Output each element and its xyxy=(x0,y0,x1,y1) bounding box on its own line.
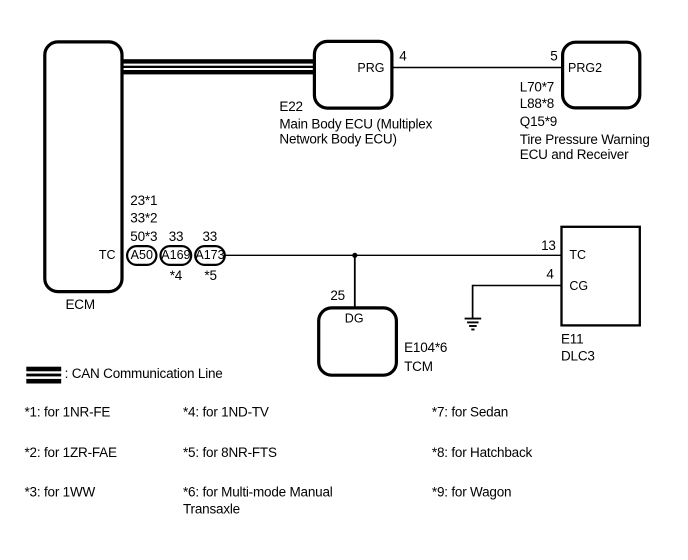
svg-text:L70*7: L70*7 xyxy=(520,79,554,94)
svg-text:PRG2: PRG2 xyxy=(568,61,602,75)
svg-text:*7: for Sedan: *7: for Sedan xyxy=(432,404,508,419)
svg-text:23*1: 23*1 xyxy=(130,193,157,208)
svg-text:*8: for Hatchback: *8: for Hatchback xyxy=(432,445,533,460)
svg-text:E11: E11 xyxy=(561,332,583,347)
connector A173 xyxy=(195,246,225,265)
ECU U2 PRG2 box (Tire Pressure Warning ECU) xyxy=(563,42,640,108)
svg-text:Transaxle: Transaxle xyxy=(183,502,240,517)
wire: CAN communication line (triple) ECM to PRG xyxy=(123,59,315,74)
svg-text:*5: *5 xyxy=(204,268,216,283)
svg-text:*9: for Wagon: *9: for Wagon xyxy=(432,485,511,500)
svg-text:*4: for 1ND-TV: *4: for 1ND-TV xyxy=(183,404,269,419)
junction node xyxy=(352,253,357,258)
legend CAN communication line symbol xyxy=(26,367,61,384)
svg-text:*3: for 1WW: *3: for 1WW xyxy=(25,485,96,500)
svg-text:L88*8: L88*8 xyxy=(520,96,554,111)
svg-text:E22: E22 xyxy=(279,99,302,114)
svg-text:TCM: TCM xyxy=(404,359,433,374)
svg-text:50*3: 50*3 xyxy=(130,229,157,244)
svg-text:13: 13 xyxy=(541,238,556,253)
svg-text:25: 25 xyxy=(330,288,345,303)
svg-text:CG: CG xyxy=(569,279,588,293)
svg-text:A50: A50 xyxy=(131,248,153,262)
svg-text:*5: for 8NR-FTS: *5: for 8NR-FTS xyxy=(183,445,277,460)
connector J1 DLC3 box xyxy=(562,227,640,326)
svg-text:E104*6: E104*6 xyxy=(404,340,447,355)
wire CG to ground xyxy=(473,285,562,287)
svg-text:: CAN Communication Line: : CAN Communication Line xyxy=(65,366,223,381)
svg-text:ECU and Receiver: ECU and Receiver xyxy=(520,147,629,162)
ECU U1 PRG box (Main Body ECU) xyxy=(314,41,392,108)
svg-text:DG: DG xyxy=(345,312,364,326)
ground xyxy=(465,319,482,330)
svg-text:*2: for 1ZR-FAE: *2: for 1ZR-FAE xyxy=(25,445,117,460)
svg-text:Main Body ECU (Multiplex: Main Body ECU (Multiplex xyxy=(279,117,432,132)
svg-text:*6: for Multi-mode Manual: *6: for Multi-mode Manual xyxy=(183,485,333,500)
svg-text:33*2: 33*2 xyxy=(130,210,157,225)
svg-text:ECM: ECM xyxy=(66,297,95,312)
svg-text:Tire Pressure Warning: Tire Pressure Warning xyxy=(520,132,650,147)
svg-text:4: 4 xyxy=(546,267,554,282)
svg-text:33: 33 xyxy=(169,229,184,244)
svg-text:A169: A169 xyxy=(161,248,190,262)
svg-text:5: 5 xyxy=(550,49,557,64)
svg-text:4: 4 xyxy=(399,49,407,64)
wire TC line A173 to DLC3 xyxy=(225,254,562,256)
ECM box xyxy=(45,42,122,292)
svg-text:*1: for 1NR-FE: *1: for 1NR-FE xyxy=(25,404,111,419)
wire PRG to PRG2 xyxy=(392,67,562,69)
wire junction down to TCM DG xyxy=(354,255,356,308)
svg-text:A173: A173 xyxy=(195,248,224,262)
ECU U3 TCM box xyxy=(319,308,397,375)
connector A169 xyxy=(161,246,192,265)
svg-text:Network Body ECU): Network Body ECU) xyxy=(279,131,396,146)
svg-text:Q15*9: Q15*9 xyxy=(520,114,557,129)
svg-text:*4: *4 xyxy=(170,268,183,283)
svg-text:PRG: PRG xyxy=(357,61,384,75)
svg-text:33: 33 xyxy=(203,229,218,244)
svg-text:TC: TC xyxy=(99,248,116,262)
svg-text:DLC3: DLC3 xyxy=(561,349,595,364)
svg-text:TC: TC xyxy=(569,248,586,262)
connector A50 xyxy=(127,246,156,265)
